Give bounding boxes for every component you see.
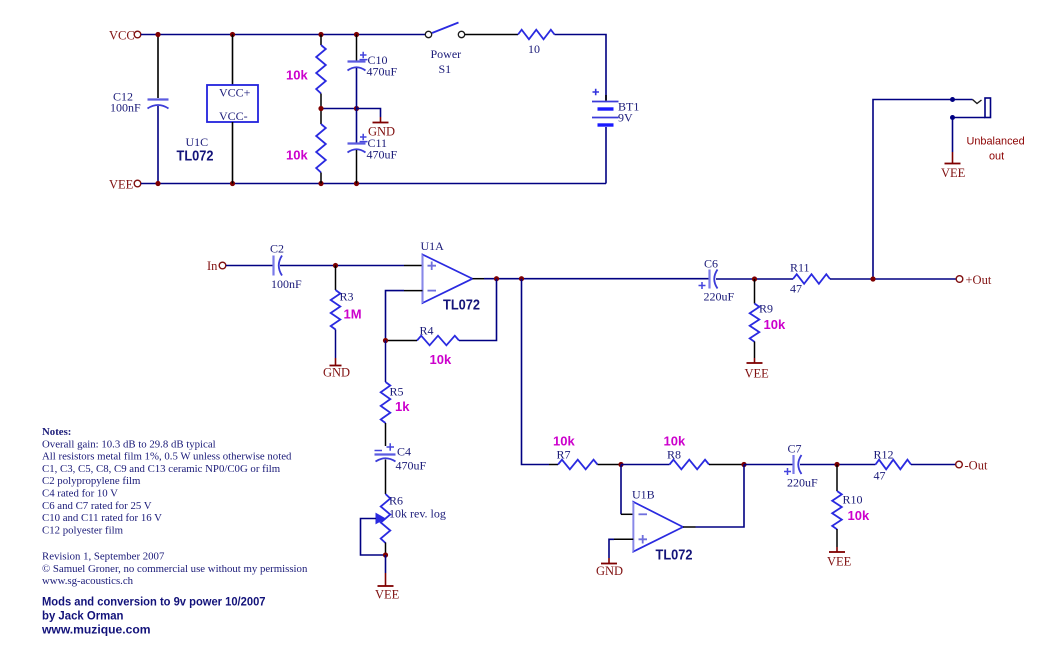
svg-text:R11: R11 <box>790 261 810 275</box>
junction dots VEE rail <box>155 181 359 186</box>
power VEE at R6 <box>375 555 400 602</box>
svg-text:220uF: 220uF <box>787 476 818 490</box>
wire U1A output <box>473 278 485 280</box>
resistor R12 <box>874 448 911 483</box>
node In terminal <box>207 259 226 273</box>
svg-text:C6 and C7 rated for 25 V: C6 and C7 rated for 25 V <box>42 500 152 512</box>
resistor 10 <box>518 30 555 56</box>
node VCC terminal <box>109 29 141 43</box>
power VEE at jack <box>941 152 966 180</box>
svg-text:© Samuel Groner, no commercial: © Samuel Groner, no commercial use witho… <box>42 563 308 575</box>
svg-text:470uF: 470uF <box>367 65 398 79</box>
label Unbalanced out <box>967 136 1025 163</box>
svg-text:Overall gain: 10.3 dB to 29.8: Overall gain: 10.3 dB to 29.8 dB typical <box>42 438 216 450</box>
wire U1B noninverting input <box>614 538 633 540</box>
wire C2 to opamp <box>280 265 404 267</box>
power VEE at R9 <box>745 358 770 381</box>
svg-text:C4: C4 <box>397 445 411 459</box>
svg-text:100nF: 100nF <box>271 277 302 291</box>
op-amp U1A <box>421 239 481 314</box>
svg-text:10k: 10k <box>286 68 308 83</box>
power VEE at R10 <box>827 547 852 569</box>
node jack tap junction <box>870 276 875 281</box>
svg-text:Mods and conversion to 9v powe: Mods and conversion to 9v power 10/2007 <box>42 595 266 609</box>
notes text block <box>42 426 308 587</box>
svg-text:GND: GND <box>323 366 350 380</box>
capacitor C10 <box>348 35 398 109</box>
credits text block <box>41 595 266 637</box>
svg-text:VEE: VEE <box>745 367 770 381</box>
wire switch to R 10 <box>465 34 518 36</box>
resistor R10 <box>832 465 870 548</box>
svg-text:R12: R12 <box>874 448 894 462</box>
op-amp U1B <box>632 488 693 564</box>
resistor divider upper 10k <box>286 35 326 109</box>
svg-text:out: out <box>989 151 1004 163</box>
wire U1B output <box>683 526 696 528</box>
svg-text:+Out: +Out <box>966 273 992 287</box>
jack J1 tip contact <box>973 100 982 104</box>
svg-text:R4: R4 <box>420 324 434 338</box>
svg-text:Notes:: Notes: <box>42 426 71 438</box>
svg-text:S1: S1 <box>439 62 452 76</box>
capacitor C11 <box>348 109 398 184</box>
jack J1 body <box>985 98 991 118</box>
capacitor C7 <box>784 442 818 490</box>
svg-text:470uF: 470uF <box>396 459 427 473</box>
resistor R11 <box>790 261 830 296</box>
node +Out terminal <box>956 273 992 287</box>
svg-text:47: 47 <box>874 469 886 483</box>
svg-text:U1A: U1A <box>421 239 445 253</box>
svg-text:10: 10 <box>528 42 540 56</box>
node jack sleeve junction <box>950 115 955 120</box>
svg-text:R10: R10 <box>843 493 863 507</box>
svg-text:9V: 9V <box>618 111 633 125</box>
svg-text:100nF: 100nF <box>110 101 141 115</box>
svg-text:10k: 10k <box>430 352 452 367</box>
svg-text:R5: R5 <box>390 385 404 399</box>
svg-text:In: In <box>207 259 218 273</box>
wire sleeve to jack <box>953 117 986 119</box>
switch S1 <box>425 23 464 77</box>
battery BT1 <box>592 89 639 184</box>
svg-text:www.sg-acoustics.ch: www.sg-acoustics.ch <box>42 575 134 587</box>
wire to lower section <box>522 279 550 465</box>
svg-text:C4 rated for 10 V: C4 rated for 10 V <box>42 488 118 500</box>
wire C6 to R11 <box>716 278 793 280</box>
svg-text:VCC-: VCC- <box>219 109 248 123</box>
capacitor C6 <box>699 257 735 304</box>
svg-text:10k: 10k <box>848 508 870 523</box>
resistor R7 <box>549 434 619 470</box>
wire R 10 to battery <box>555 35 607 101</box>
wire C7 to R12 <box>800 464 876 466</box>
svg-text:Power: Power <box>431 47 462 61</box>
node R10 junction <box>834 462 839 467</box>
node R8 output junction <box>741 462 746 467</box>
svg-text:C12 polyester film: C12 polyester film <box>42 524 124 536</box>
wire tip to jack <box>953 99 973 101</box>
wire U1B inverting input <box>620 465 622 515</box>
svg-text:C7: C7 <box>788 442 802 456</box>
ground GND at U1B <box>596 558 623 578</box>
wire output jack tap <box>873 100 951 280</box>
wire R11 to +Out <box>830 278 956 280</box>
resistor R8 <box>664 434 743 470</box>
wire divider midpoint <box>321 108 357 110</box>
svg-text:GND: GND <box>596 564 623 578</box>
resistor R5 <box>381 341 411 447</box>
svg-text:470uF: 470uF <box>367 148 398 162</box>
svg-text:VEE: VEE <box>941 166 966 180</box>
svg-text:VEE: VEE <box>375 588 400 602</box>
svg-text:-Out: -Out <box>965 459 988 473</box>
ground GND at divider <box>357 109 396 139</box>
resistor R4 <box>386 324 460 368</box>
svg-text:TL072: TL072 <box>443 297 480 314</box>
svg-text:VCC: VCC <box>109 29 135 43</box>
capacitor C2 <box>270 242 302 292</box>
node jack tip junction <box>950 97 955 102</box>
svg-text:VEE: VEE <box>109 178 134 192</box>
svg-text:C2: C2 <box>270 242 284 256</box>
svg-text:C2 polypropylene film: C2 polypropylene film <box>42 475 141 487</box>
svg-text:10k: 10k <box>286 148 308 163</box>
svg-text:VCC+: VCC+ <box>219 86 251 100</box>
node output junction A <box>494 276 499 281</box>
svg-text:R3: R3 <box>340 290 354 304</box>
node VEE terminal <box>109 178 141 192</box>
node R9 junction <box>752 276 757 281</box>
svg-text:Revision 1, September 2007: Revision 1, September 2007 <box>42 551 165 563</box>
svg-text:Unbalanced: Unbalanced <box>967 136 1025 148</box>
wire U1A inverting input <box>404 290 423 292</box>
op-amp U1C power block <box>177 35 259 184</box>
wire sleeve to VEE <box>952 118 954 153</box>
potentiometer R6 <box>361 494 446 556</box>
svg-text:R6: R6 <box>389 494 403 508</box>
svg-text:U1B: U1B <box>632 488 655 502</box>
wire VEE bottom rail <box>141 183 606 185</box>
svg-text:220uF: 220uF <box>704 290 735 304</box>
svg-text:www.muzique.com: www.muzique.com <box>41 623 151 637</box>
junction dots VCC rail <box>155 32 359 37</box>
svg-text:10k rev. log: 10k rev. log <box>389 507 446 521</box>
svg-text:TL072: TL072 <box>177 148 214 165</box>
svg-text:C6: C6 <box>704 257 718 271</box>
wire junction to R8 <box>621 464 670 466</box>
svg-text:C10 and C11 rated for 16 V: C10 and C11 rated for 16 V <box>42 512 162 524</box>
resistor divider lower 10k <box>286 109 326 184</box>
svg-text:TL072: TL072 <box>656 547 693 564</box>
svg-text:R7: R7 <box>557 448 571 462</box>
svg-text:R8: R8 <box>667 448 681 462</box>
svg-text:1k: 1k <box>395 399 410 414</box>
capacitor C4 <box>375 443 427 494</box>
wire feedback from output <box>459 279 497 341</box>
svg-text:VEE: VEE <box>827 555 852 569</box>
wire R12 to -Out <box>911 464 956 466</box>
node output junction B <box>519 276 524 281</box>
svg-text:10k: 10k <box>553 434 575 449</box>
svg-text:C1, C3, C5, C8, C9 and C13 cer: C1, C3, C5, C8, C9 and C13 ceramic NP0/C… <box>42 463 281 475</box>
svg-text:10k: 10k <box>664 434 686 449</box>
svg-text:by Jack Orman: by Jack Orman <box>42 609 124 623</box>
node input junction <box>333 263 338 268</box>
svg-text:47: 47 <box>790 282 802 296</box>
ground GND at R3 <box>323 358 350 380</box>
node -Out terminal <box>956 459 988 473</box>
junction dots divider midpoint <box>318 106 359 111</box>
resistor R3 <box>331 266 362 359</box>
svg-text:All resistors metal film 1%, 0: All resistors metal film 1%, 0.5 W unles… <box>42 451 292 463</box>
wire junction to C7 <box>744 464 793 466</box>
svg-text:1M: 1M <box>344 307 362 322</box>
wire In to C2 <box>226 265 273 267</box>
svg-text:10k: 10k <box>764 317 786 332</box>
wire VCC top rail <box>141 34 425 36</box>
node feedback junction <box>383 338 388 343</box>
capacitor C12 <box>110 35 169 184</box>
node R6 wiper junction <box>383 552 388 557</box>
node R7 R8 junction <box>618 462 623 467</box>
svg-text:R9: R9 <box>759 302 773 316</box>
resistor R9 <box>750 279 786 358</box>
